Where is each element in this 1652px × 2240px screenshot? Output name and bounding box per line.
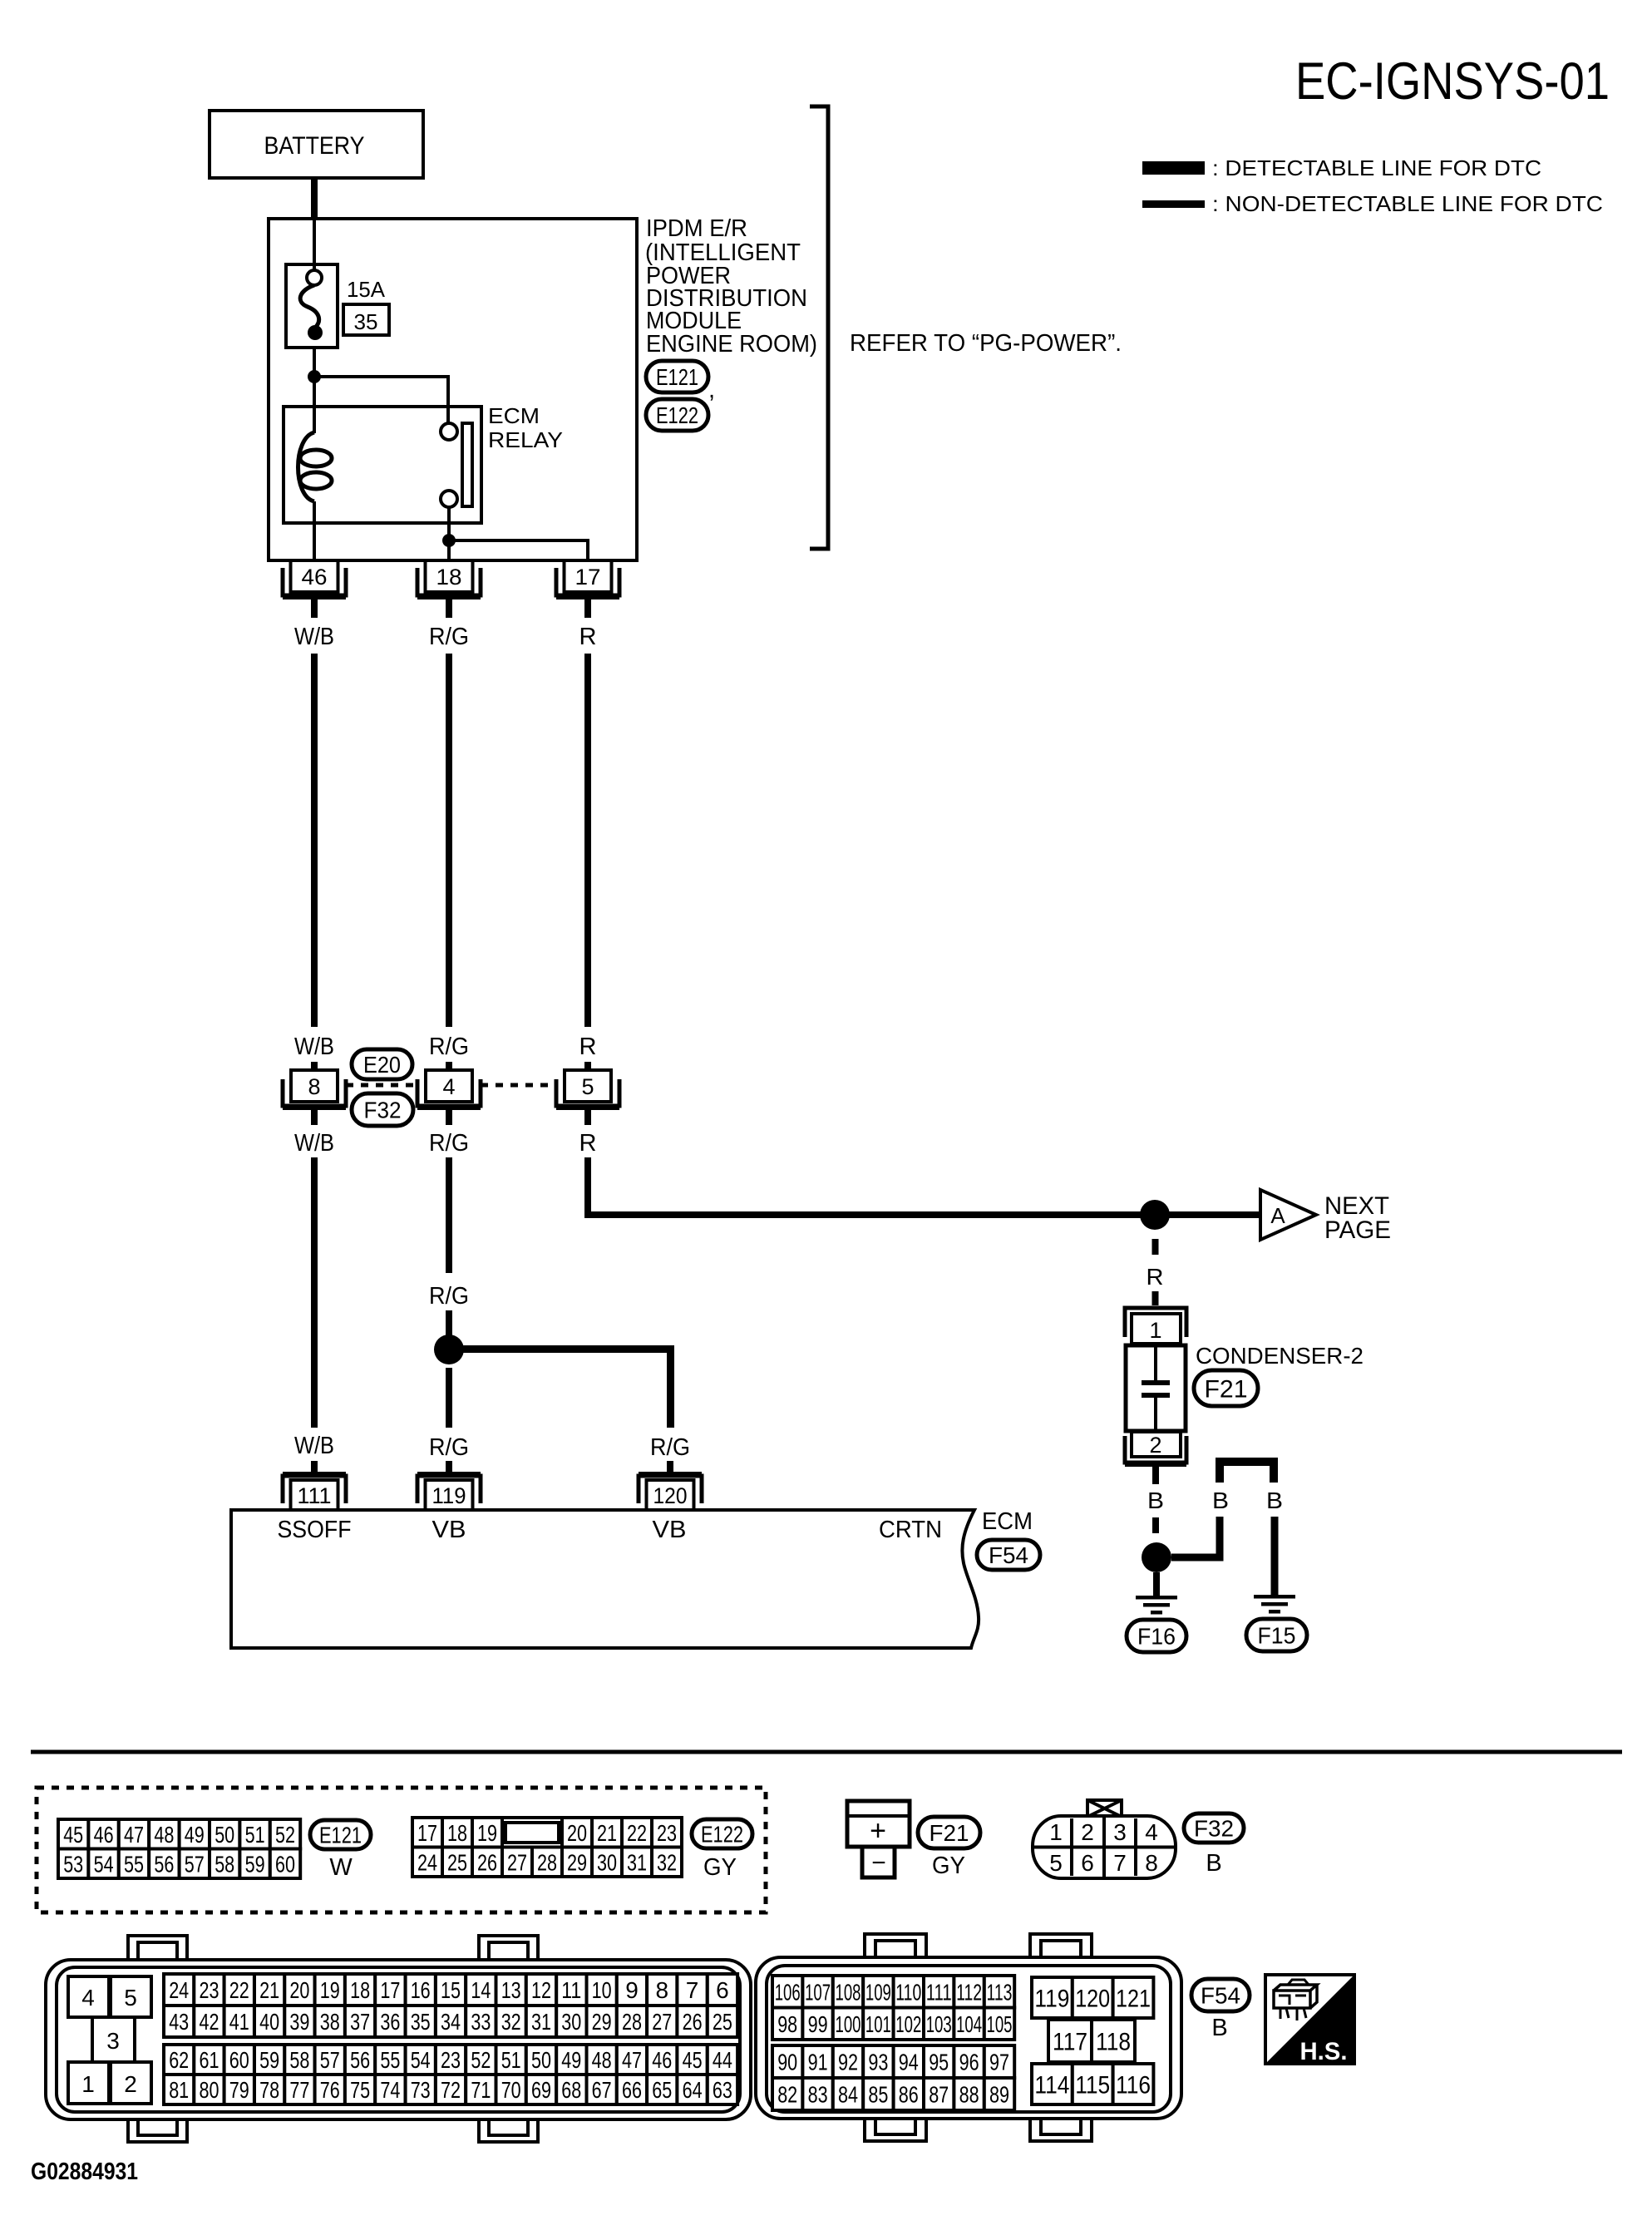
svg-text:R: R <box>579 1034 597 1060</box>
svg-text:64: 64 <box>683 2077 703 2103</box>
terminal 17 <box>565 560 612 592</box>
wire stub to terminal 119 <box>446 1461 452 1473</box>
svg-text:23: 23 <box>441 2047 461 2073</box>
svg-text:25: 25 <box>447 1849 467 1875</box>
ground splice dot <box>1142 1542 1171 1572</box>
svg-text:63: 63 <box>713 2077 732 2103</box>
svg-text:19: 19 <box>320 1977 340 2003</box>
svg-text:F16: F16 <box>1137 1624 1176 1650</box>
connector oval F32 <box>1184 1813 1244 1843</box>
condenser-2 body <box>1126 1345 1186 1431</box>
svg-text:4: 4 <box>442 1074 455 1099</box>
svg-text:22: 22 <box>627 1820 647 1846</box>
svg-text:2: 2 <box>1149 1433 1161 1458</box>
svg-text:18: 18 <box>350 1977 370 2003</box>
wire bridge between B wires <box>1220 1462 1274 1483</box>
svg-text:106: 106 <box>775 1979 801 2005</box>
svg-text:96: 96 <box>959 2050 979 2075</box>
svg-text:4: 4 <box>81 1985 95 2011</box>
svg-text:F54: F54 <box>1201 1983 1240 2009</box>
svg-text:H.S.: H.S. <box>1300 2038 1348 2065</box>
svg-text:7: 7 <box>686 1977 699 2003</box>
svg-text:73: 73 <box>411 2077 431 2103</box>
connector oval F54 <box>1191 1979 1250 2011</box>
terminal 120 <box>639 1476 702 1503</box>
svg-text:SSOFF: SSOFF <box>278 1517 352 1543</box>
fuse number 35 box <box>343 304 389 335</box>
wire junction to terminal 17 <box>449 540 588 560</box>
svg-text:29: 29 <box>592 2009 612 2035</box>
svg-text:121: 121 <box>1116 1985 1151 2012</box>
svg-text:30: 30 <box>561 2009 581 2035</box>
svg-text:35: 35 <box>411 2009 431 2035</box>
svg-text:102: 102 <box>895 2011 921 2037</box>
fuse element symbol <box>307 270 322 285</box>
ECM relay box <box>284 407 481 523</box>
svg-text:39: 39 <box>289 2009 309 2035</box>
svg-text:33: 33 <box>471 2009 491 2035</box>
svg-text:52: 52 <box>275 1822 295 1848</box>
svg-text:GY: GY <box>932 1853 965 1879</box>
svg-text:: DETECTABLE LINE FOR DTC: : DETECTABLE LINE FOR DTC <box>1212 155 1541 180</box>
connector oval E121 <box>310 1820 371 1849</box>
wire relay contact to junction <box>447 507 451 540</box>
svg-text:47: 47 <box>124 1822 144 1848</box>
svg-text:46: 46 <box>94 1822 114 1848</box>
wire long run R <box>584 654 591 1027</box>
battery box <box>210 111 423 178</box>
E122 blank key slot <box>502 1818 562 1848</box>
svg-text:32: 32 <box>657 1849 677 1875</box>
svg-text:45: 45 <box>683 2047 703 2073</box>
wire stub below terminal (W/B) <box>311 599 318 618</box>
connector oval F32 <box>352 1093 413 1126</box>
svg-text:65: 65 <box>652 2077 672 2103</box>
svg-text:23: 23 <box>200 1977 219 2003</box>
svg-text:15: 15 <box>441 1977 461 2003</box>
F54 pin grid rows 90-97 / 82-89 <box>772 2045 802 2078</box>
svg-text:BATTERY: BATTERY <box>264 132 365 160</box>
svg-text:56: 56 <box>350 2047 370 2073</box>
next page arrow A <box>1260 1190 1316 1240</box>
F54 pin grid rows 62-44 / 81-63 <box>164 2045 194 2075</box>
svg-text:E121: E121 <box>319 1823 362 1848</box>
svg-text:118: 118 <box>1096 2028 1131 2055</box>
svg-text:25: 25 <box>713 2009 732 2035</box>
svg-text:52: 52 <box>471 2047 491 2073</box>
svg-text:41: 41 <box>229 2009 249 2035</box>
svg-text:VB: VB <box>653 1517 687 1543</box>
wire dash above ground splice <box>1152 1517 1159 1533</box>
svg-text:8: 8 <box>1145 1850 1158 1876</box>
svg-text:24: 24 <box>169 1977 189 2003</box>
F54 pin grid 117 118 <box>1048 2020 1092 2062</box>
relay contact bottom circle <box>441 491 457 507</box>
F54 pin grid 119-121 <box>1032 1977 1073 2018</box>
svg-text:20: 20 <box>289 1977 309 2003</box>
svg-text:67: 67 <box>592 2077 612 2103</box>
svg-text:PAGE: PAGE <box>1324 1216 1391 1244</box>
svg-text:88: 88 <box>959 2082 979 2108</box>
terminal 111 <box>283 1476 346 1503</box>
wire long run R/G <box>446 654 452 1027</box>
svg-text:110: 110 <box>895 1979 921 2005</box>
svg-text:119: 119 <box>432 1483 466 1508</box>
connector oval E122 <box>646 399 708 431</box>
wire stub below condenser <box>1152 1467 1159 1484</box>
svg-text:5: 5 <box>581 1074 594 1099</box>
svg-text:103: 103 <box>926 2011 952 2037</box>
connector oval E20 <box>352 1049 412 1079</box>
svg-text:108: 108 <box>836 1979 861 2005</box>
svg-text:31: 31 <box>531 2009 551 2035</box>
svg-text:6: 6 <box>716 1977 729 2003</box>
svg-text:58: 58 <box>215 1851 234 1877</box>
H.S. connector sketch <box>1274 1985 1317 2008</box>
junction dot below relay <box>442 534 456 547</box>
svg-text:7: 7 <box>1113 1850 1127 1876</box>
svg-text:92: 92 <box>838 2050 858 2075</box>
wire fuse to junction <box>313 348 316 377</box>
terminal 46 <box>291 560 338 592</box>
svg-text:111: 111 <box>926 1979 952 2005</box>
svg-text:CRTN: CRTN <box>879 1517 942 1543</box>
svg-text:2: 2 <box>1081 1819 1094 1845</box>
svg-text:80: 80 <box>200 2077 219 2103</box>
svg-text:G02884931: G02884931 <box>31 2159 138 2185</box>
svg-text:R: R <box>1147 1264 1164 1290</box>
dashed connector-view box <box>37 1788 766 1912</box>
svg-text:B: B <box>1147 1488 1164 1513</box>
F54 connector body right <box>865 1934 926 1962</box>
svg-text:13: 13 <box>501 1977 521 2003</box>
svg-text:W/B: W/B <box>294 1433 334 1459</box>
svg-text:120: 120 <box>653 1483 688 1508</box>
wire below splice to 119 <box>446 1368 452 1428</box>
svg-text:24: 24 <box>417 1849 437 1875</box>
connector view F32 (8-pin oval) <box>1087 1800 1122 1817</box>
svg-text:89: 89 <box>989 2082 1009 2108</box>
svg-text:F21: F21 <box>930 1820 969 1846</box>
svg-text:62: 62 <box>169 2047 189 2073</box>
svg-text:6: 6 <box>1081 1850 1094 1876</box>
wire R/G branch vertical to 120 <box>667 1345 674 1428</box>
svg-text:75: 75 <box>350 2077 370 2103</box>
svg-text:W/B: W/B <box>294 624 334 650</box>
svg-text:W/B: W/B <box>294 1130 334 1157</box>
condenser terminal 1 <box>1125 1308 1186 1337</box>
svg-text:56: 56 <box>154 1851 174 1877</box>
F54 key block pins 4 5 3 1 2 <box>68 1976 109 2017</box>
relay contact bar <box>462 423 472 506</box>
svg-text:50: 50 <box>531 2047 551 2073</box>
svg-text:3: 3 <box>1113 1819 1127 1845</box>
svg-text:A: A <box>1270 1203 1285 1228</box>
svg-text:104: 104 <box>956 2011 982 2037</box>
svg-text:28: 28 <box>537 1849 557 1875</box>
svg-text:60: 60 <box>275 1851 295 1877</box>
svg-text:32: 32 <box>501 2009 521 2035</box>
svg-text:3: 3 <box>106 2028 120 2054</box>
svg-text:E20: E20 <box>363 1052 401 1078</box>
svg-text:46: 46 <box>652 2047 672 2073</box>
svg-text:85: 85 <box>868 2082 888 2108</box>
svg-text:57: 57 <box>185 1851 205 1877</box>
svg-text:CONDENSER-2: CONDENSER-2 <box>1196 1343 1364 1369</box>
svg-text:120: 120 <box>1075 1985 1110 2012</box>
svg-text:91: 91 <box>808 2050 828 2075</box>
svg-text:8: 8 <box>308 1074 320 1099</box>
svg-text:59: 59 <box>245 1851 265 1877</box>
wire R horizontal to next page <box>584 1211 1260 1218</box>
F54 pin grid rows 106-113 / 98-105 <box>772 1976 802 2008</box>
svg-text:19: 19 <box>477 1820 497 1846</box>
svg-text:43: 43 <box>169 2009 189 2035</box>
svg-text:21: 21 <box>259 1977 279 2003</box>
svg-text:B: B <box>1266 1488 1283 1513</box>
bracket for IPDM refer note <box>810 106 828 549</box>
svg-text:49: 49 <box>185 1822 205 1848</box>
svg-text:+: + <box>870 1815 886 1847</box>
F54 pin grid rows 24-6 / 43-25 <box>164 1974 194 2006</box>
junction dot below fuse <box>308 370 321 383</box>
svg-text:59: 59 <box>259 2047 279 2073</box>
svg-text:87: 87 <box>929 2082 949 2108</box>
wire R/G run <box>446 1157 452 1273</box>
H.S. inspection mark <box>1265 1975 1354 2064</box>
svg-text:R: R <box>579 624 597 650</box>
svg-text:66: 66 <box>622 2077 642 2103</box>
wire middle B leg to splice <box>1171 1517 1220 1557</box>
inline terminal 4 <box>426 1070 472 1102</box>
svg-text:35: 35 <box>354 309 378 334</box>
svg-text:60: 60 <box>229 2047 249 2073</box>
svg-text:51: 51 <box>501 2047 521 2073</box>
svg-text:44: 44 <box>713 2047 732 2073</box>
ground symbol <box>1136 1596 1177 1600</box>
wire stub below inline connector (W/B) <box>311 1110 318 1125</box>
svg-text:R/G: R/G <box>429 1434 469 1461</box>
wire junction to relay contact <box>314 377 448 423</box>
wire stub below terminal (R/G) <box>446 599 452 618</box>
svg-text:2: 2 <box>124 2071 137 2097</box>
svg-text:38: 38 <box>320 2009 340 2035</box>
svg-text:1: 1 <box>81 2071 95 2097</box>
svg-text:49: 49 <box>561 2047 581 2073</box>
svg-text:RELAY: RELAY <box>488 427 563 452</box>
svg-text:21: 21 <box>597 1820 617 1846</box>
svg-text:ECM: ECM <box>982 1508 1033 1535</box>
svg-text:27: 27 <box>507 1849 527 1875</box>
svg-text:105: 105 <box>987 2011 1013 2037</box>
svg-text:116: 116 <box>1116 2071 1151 2099</box>
svg-text:40: 40 <box>259 2009 279 2035</box>
IPDM E/R box <box>269 219 637 560</box>
svg-text:46: 46 <box>302 565 328 590</box>
svg-text:114: 114 <box>1034 2071 1069 2099</box>
svg-text:ENGINE ROOM): ENGINE ROOM) <box>646 331 817 358</box>
svg-text:5: 5 <box>124 1985 137 2011</box>
svg-text:R/G: R/G <box>429 1130 469 1157</box>
svg-text:18: 18 <box>436 565 462 590</box>
svg-text:111: 111 <box>298 1483 332 1508</box>
wire right B leg to ground F15 <box>1271 1517 1279 1595</box>
svg-text:117: 117 <box>1053 2028 1087 2055</box>
svg-text:69: 69 <box>531 2077 551 2103</box>
svg-text:16: 16 <box>411 1977 431 2003</box>
svg-text:F32: F32 <box>1194 1816 1234 1842</box>
svg-text:R: R <box>579 1130 597 1157</box>
relay coil wire out <box>313 501 316 560</box>
wire stub to inline connector (R/G) <box>446 1062 452 1070</box>
connector oval F21 <box>1194 1370 1258 1406</box>
wire long run W/B <box>311 654 318 1027</box>
svg-text:R/G: R/G <box>650 1434 690 1461</box>
svg-text:26: 26 <box>477 1849 497 1875</box>
terminal 18 <box>426 560 473 592</box>
svg-text:97: 97 <box>989 2050 1009 2075</box>
svg-text:50: 50 <box>215 1822 234 1848</box>
svg-text:98: 98 <box>777 2011 797 2037</box>
svg-text:90: 90 <box>777 2050 797 2075</box>
svg-text:84: 84 <box>838 2082 858 2108</box>
ECM box <box>231 1510 979 1648</box>
svg-text:76: 76 <box>320 2077 340 2103</box>
svg-text:4: 4 <box>1145 1819 1158 1845</box>
svg-text:58: 58 <box>289 2047 309 2073</box>
splice dot R <box>1140 1200 1170 1230</box>
svg-text:9: 9 <box>625 1977 639 2003</box>
svg-text:109: 109 <box>865 1979 891 2005</box>
wire stub to inline connector (W/B) <box>311 1062 318 1070</box>
ground symbol <box>1254 1595 1295 1599</box>
svg-text:17: 17 <box>380 1977 400 2003</box>
svg-text:82: 82 <box>777 2082 797 2108</box>
svg-text:EC-IGNSYS-01: EC-IGNSYS-01 <box>1295 52 1610 111</box>
svg-text:E121: E121 <box>656 364 698 390</box>
svg-text:B: B <box>1212 1488 1229 1513</box>
svg-text:GY: GY <box>703 1854 737 1881</box>
wire battery feed inside IPDM <box>313 219 316 270</box>
svg-text:94: 94 <box>899 2050 919 2075</box>
svg-text:14: 14 <box>471 1977 491 2003</box>
separator line <box>31 1750 1622 1754</box>
svg-text:28: 28 <box>622 2009 642 2035</box>
svg-text:95: 95 <box>929 2050 949 2075</box>
ground oval F16 <box>1127 1620 1186 1652</box>
svg-text:99: 99 <box>808 2011 828 2037</box>
wire dash below splice <box>1152 1239 1159 1255</box>
dashed harness line <box>481 1083 556 1088</box>
svg-text:W/B: W/B <box>294 1034 334 1060</box>
inline terminal 5 <box>565 1070 611 1102</box>
wire battery to IPDM (thick W/B feed) <box>311 178 318 220</box>
svg-text:ECM: ECM <box>488 403 540 428</box>
svg-text:R/G: R/G <box>429 624 469 650</box>
svg-text:29: 29 <box>567 1849 587 1875</box>
svg-text:W: W <box>329 1854 353 1881</box>
svg-text:74: 74 <box>380 2077 400 2103</box>
svg-text:30: 30 <box>597 1849 617 1875</box>
svg-text:55: 55 <box>124 1851 144 1877</box>
wire stub below inline connector (R/G) <box>446 1110 452 1125</box>
svg-text:E122: E122 <box>701 1822 743 1848</box>
svg-text:−: − <box>871 1849 886 1877</box>
relay coil <box>298 432 315 501</box>
svg-text:31: 31 <box>627 1849 647 1875</box>
svg-text:10: 10 <box>592 1977 612 2003</box>
svg-text:17: 17 <box>575 565 601 590</box>
svg-text:F21: F21 <box>1205 1375 1248 1403</box>
wire stub below inline connector (R) <box>584 1110 591 1125</box>
svg-text:71: 71 <box>471 2077 491 2103</box>
svg-text:48: 48 <box>592 2047 612 2073</box>
wire splice to ground F16 <box>1153 1572 1160 1596</box>
condenser terminal 2 <box>1132 1432 1181 1457</box>
svg-text:70: 70 <box>501 2077 521 2103</box>
fuse 15A box <box>286 264 338 348</box>
svg-text:42: 42 <box>200 2009 219 2035</box>
svg-text:20: 20 <box>567 1820 587 1846</box>
svg-text:27: 27 <box>652 2009 672 2035</box>
svg-text:101: 101 <box>865 2011 891 2037</box>
svg-text:119: 119 <box>1034 1985 1069 2012</box>
svg-text:F32: F32 <box>364 1098 402 1123</box>
svg-text:81: 81 <box>169 2077 189 2103</box>
svg-text:VB: VB <box>432 1517 466 1543</box>
svg-text:115: 115 <box>1075 2071 1110 2099</box>
svg-text:45: 45 <box>63 1822 83 1848</box>
connector pinout E121 grid <box>58 1819 88 1849</box>
svg-text:15A: 15A <box>347 277 386 302</box>
svg-text:REFER TO “PG-POWER”.: REFER TO “PG-POWER”. <box>850 330 1122 357</box>
wire W/B run to ECM <box>311 1157 318 1428</box>
svg-text:B: B <box>1206 1850 1221 1877</box>
F54 connector body left <box>128 1936 187 1966</box>
svg-text:100: 100 <box>836 2011 861 2037</box>
connector oval F54 <box>977 1540 1040 1570</box>
wire stub to inline connector (R) <box>584 1062 591 1070</box>
svg-text:61: 61 <box>200 2047 219 2073</box>
svg-text:51: 51 <box>245 1822 265 1848</box>
wire stub to terminal 111 <box>311 1461 318 1473</box>
connector oval E122 <box>692 1819 752 1848</box>
svg-text:36: 36 <box>380 2009 400 2035</box>
svg-text:48: 48 <box>154 1822 174 1848</box>
svg-text:23: 23 <box>657 1820 677 1846</box>
svg-text:112: 112 <box>956 1979 982 2005</box>
svg-text:68: 68 <box>561 2077 581 2103</box>
wire stub to terminal 120 <box>667 1461 673 1473</box>
F54 pin grid 114-116 <box>1032 2064 1073 2104</box>
inline terminal 8 <box>291 1070 338 1102</box>
svg-text:77: 77 <box>289 2077 309 2103</box>
wire junction to terminal 18 <box>447 540 451 560</box>
svg-text:72: 72 <box>441 2077 461 2103</box>
svg-text:37: 37 <box>350 2009 370 2035</box>
svg-text:57: 57 <box>320 2047 340 2073</box>
svg-text:5: 5 <box>1049 1850 1063 1876</box>
connector oval E121 <box>646 361 708 392</box>
svg-text:12: 12 <box>531 1977 551 2003</box>
svg-text:54: 54 <box>94 1851 114 1877</box>
svg-text:55: 55 <box>380 2047 400 2073</box>
svg-text:R/G: R/G <box>429 1034 469 1060</box>
terminal 119 <box>417 1476 481 1503</box>
connector oval F21 <box>918 1817 980 1848</box>
svg-text:107: 107 <box>805 1979 831 2005</box>
svg-text:1: 1 <box>1049 1819 1063 1845</box>
